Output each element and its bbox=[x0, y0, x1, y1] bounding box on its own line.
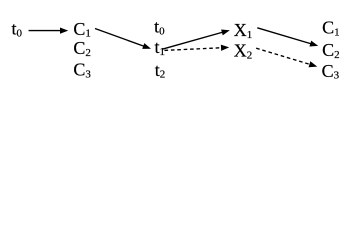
arrow: t1 to X1 (solid) bbox=[162, 29, 230, 49]
arrow: t1 to X2 (dashed) bbox=[165, 45, 230, 51]
node C3 (right list) bbox=[322, 61, 340, 82]
svg-text:C2: C2 bbox=[322, 40, 340, 61]
node t1 (middle list) bbox=[155, 37, 166, 58]
svg-text:C1: C1 bbox=[73, 19, 91, 40]
svg-text:C3: C3 bbox=[322, 61, 340, 82]
node X1 bbox=[234, 20, 253, 41]
node X2 bbox=[234, 40, 253, 61]
node C3 (left list) bbox=[73, 59, 91, 80]
svg-text:X1: X1 bbox=[234, 20, 253, 41]
svg-text:t1: t1 bbox=[155, 37, 166, 58]
arrow: X1 to C2 (solid) bbox=[257, 28, 318, 47]
node C2 (left list) bbox=[73, 38, 91, 59]
arrow: X2 to C3 (dashed) bbox=[256, 48, 317, 67]
svg-text:C1: C1 bbox=[322, 18, 340, 39]
node C2 (right list) bbox=[322, 40, 340, 61]
node C1 (right list) bbox=[322, 18, 340, 39]
svg-text:C3: C3 bbox=[73, 59, 91, 80]
svg-text:t2: t2 bbox=[155, 60, 166, 81]
node C1 (left list) bbox=[73, 19, 91, 40]
svg-text:t0: t0 bbox=[12, 18, 23, 39]
node t2 (middle list) bbox=[155, 60, 166, 81]
arrow: t0 to C-list (solid) bbox=[29, 28, 69, 34]
node t0 (middle list) bbox=[154, 17, 165, 38]
svg-text:C2: C2 bbox=[73, 38, 91, 59]
svg-text:t0: t0 bbox=[154, 17, 165, 38]
svg-text:X2: X2 bbox=[234, 40, 253, 61]
node t0 (left) bbox=[12, 18, 23, 39]
arrow: C1 to t1 (solid) bbox=[95, 29, 151, 49]
